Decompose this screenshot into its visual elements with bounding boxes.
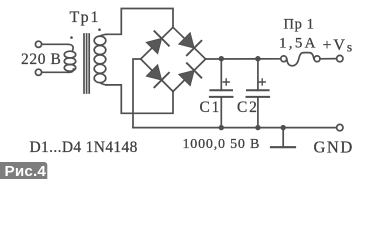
diode bridge diamond wires xyxy=(141,27,206,91)
diode D3 bottom-left xyxy=(145,63,169,87)
svg-text:220 В: 220 В xyxy=(21,51,61,68)
svg-text:+Vs: +Vs xyxy=(323,37,355,54)
svg-text:C1: C1 xyxy=(200,99,222,116)
svg-text:GND: GND xyxy=(314,137,354,156)
polarity dot secondary xyxy=(98,28,101,31)
svg-text:1,5А: 1,5А xyxy=(279,36,318,52)
transformer T1 secondary winding xyxy=(94,34,107,85)
svg-text:Пр 1: Пр 1 xyxy=(284,17,315,33)
node junction C1 top xyxy=(219,56,224,61)
node junction ground xyxy=(281,125,286,130)
wire xyxy=(42,43,68,45)
svg-text:D1...D4 1N4148: D1...D4 1N4148 xyxy=(30,139,138,156)
wire bridge left vertex to ground bus xyxy=(133,59,141,128)
capacitor C2 xyxy=(247,59,270,128)
diode D4 bottom-right xyxy=(177,63,201,87)
node junction C2 top xyxy=(255,56,260,61)
terminal +Vs output xyxy=(337,55,343,61)
wire secondary top to bridge top xyxy=(106,9,173,35)
wire bridge right vertex to fuse xyxy=(206,58,281,60)
node junction C2 bottom xyxy=(255,125,260,130)
wire secondary bottom to bridge bottom xyxy=(106,85,173,113)
ground symbol xyxy=(271,128,295,148)
terminal X2 bottom input xyxy=(35,69,41,75)
figure label box xyxy=(0,162,47,182)
svg-text:1000,0 50 В: 1000,0 50 В xyxy=(183,137,261,152)
diode D1 top-left xyxy=(145,31,169,55)
transformer T1 primary winding xyxy=(64,44,75,72)
svg-text:Рис.4: Рис.4 xyxy=(5,163,47,179)
polarity dot primary xyxy=(70,36,73,39)
capacitor C1 xyxy=(210,59,233,128)
svg-text:Тр1: Тр1 xyxy=(70,9,101,26)
terminal GND output xyxy=(337,124,343,130)
wire xyxy=(42,71,68,73)
transformer T1 core xyxy=(84,34,89,93)
svg-text:C2: C2 xyxy=(237,99,259,116)
terminal X1 top input xyxy=(35,41,41,47)
wire ground bus xyxy=(133,127,337,129)
node junction C1 bottom xyxy=(219,125,224,130)
fuse F1 xyxy=(281,53,337,66)
diode D2 top-right xyxy=(177,31,201,55)
